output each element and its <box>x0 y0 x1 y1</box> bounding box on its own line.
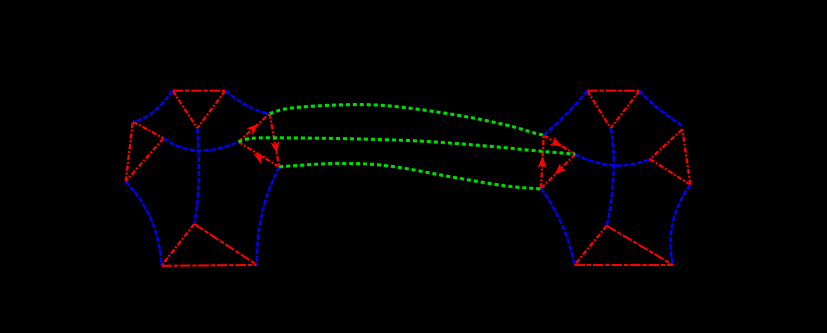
right surface: top triangle edge P1'-P3' <box>587 91 611 129</box>
arrowhead on R2-R1 <box>247 124 259 135</box>
arrowhead on R3-R2 <box>254 154 267 164</box>
right surface: boundary arc P2'-U1 <box>640 91 684 127</box>
right surface: top triangle edge P1'-P2' <box>587 90 639 92</box>
arrowhead on T'-A' <box>549 137 562 147</box>
right surface: left triangle directed edge A'-B' <box>541 154 575 188</box>
right surface: boundary arc B'-W2 <box>541 188 575 265</box>
left surface: top triangle edge P1-P3 <box>173 91 198 129</box>
right surface: bottom triangle edge W2-W3 <box>575 264 674 266</box>
green gluing curve G2: R2 to A' <box>238 138 575 154</box>
green gluing curve G1: R1 to T' <box>270 105 544 136</box>
left surface: boundary arc R3-S3 <box>257 167 279 265</box>
left surface: top triangle edge P2-P3 <box>197 91 225 129</box>
right surface: interior vertical arc P3'-W1 <box>607 128 614 226</box>
right surface: right triangle edge U3-U1 <box>682 129 690 184</box>
arrowhead on B'-T' <box>538 156 547 168</box>
right surface: bottom triangle edge W1-W3 <box>607 226 673 265</box>
right surface: top triangle edge P2'-P3' <box>611 91 640 129</box>
left surface: bottom triangle edge S2-S3 <box>161 264 257 267</box>
arrowhead on R1-R3 <box>270 141 279 154</box>
left surface: boundary arc P1-Q1 <box>134 91 173 122</box>
left surface: interior horizontal arc Q2-R2 <box>164 138 239 150</box>
left surface: left triangle edge Q2-Q3 <box>126 138 164 181</box>
right surface: boundary arc U3-W3 <box>671 185 691 265</box>
left surface: right triangle directed edge R1-R3 <box>270 114 280 167</box>
left surface: right triangle directed edge R2-R1 <box>238 114 269 142</box>
left surface: boundary arc P2-R1 <box>225 91 270 114</box>
right surface: left triangle directed edge T'-A' <box>544 135 576 154</box>
left surface: top triangle edge P1-P2 <box>173 90 226 92</box>
left surface: interior vertical arc P3-S1 <box>194 128 199 224</box>
left surface: bottom triangle edge S1-S2 <box>161 224 194 266</box>
left surface: right triangle directed edge R3-R2 <box>238 142 279 167</box>
right surface: right triangle edge U1-U2 <box>650 129 682 159</box>
left surface: bottom triangle edge S1-S3 <box>194 224 257 265</box>
right surface: interior horizontal arc A'-U2 <box>575 154 650 165</box>
right surface: boundary arc P1'-T' <box>544 91 588 136</box>
left surface: boundary arc Q3-S2 <box>126 182 162 266</box>
right surface: left triangle directed edge B'-T' <box>541 135 544 188</box>
green gluing curve G3: R3 to B' <box>279 163 541 188</box>
arrowhead on A'-B' <box>555 163 567 175</box>
left surface: left triangle edge Q3-Q1 <box>126 122 133 182</box>
left surface: left triangle edge Q1-Q2 <box>133 122 164 139</box>
right surface: bottom triangle edge W1-W2 <box>575 226 607 265</box>
right surface: right triangle edge U2-U3 <box>650 159 691 185</box>
